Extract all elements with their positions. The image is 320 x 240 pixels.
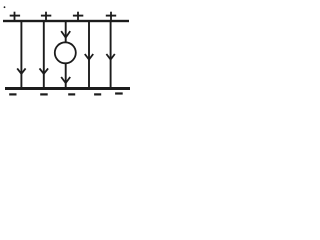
stray speck bbox=[4, 6, 6, 8]
field line 5 bbox=[110, 22, 112, 88]
arrowhead on field line 3 lower bbox=[61, 77, 70, 83]
plus charge 1 bbox=[10, 12, 20, 21]
minus charge 2 bbox=[40, 93, 48, 95]
minus charge 4 bbox=[94, 93, 101, 95]
arrowhead on field line 5 bbox=[106, 54, 114, 60]
minus charge 1 bbox=[9, 93, 16, 95]
plus charge 2 bbox=[41, 12, 51, 21]
top plate (positive electrode) bbox=[3, 20, 129, 22]
arrowhead on field line 1 bbox=[17, 68, 25, 73]
field line 1 bbox=[20, 22, 22, 88]
arrowhead on field line 2 bbox=[40, 68, 49, 73]
arrowhead on field line 4 bbox=[85, 54, 93, 60]
charged sphere bbox=[55, 42, 76, 63]
plus charge 3 bbox=[73, 12, 83, 21]
bottom plate (negative electrode) bbox=[5, 87, 130, 90]
field line 3 upper segment bbox=[65, 22, 67, 42]
plus charge 4 bbox=[106, 12, 116, 21]
arrowhead on field line 3 upper bbox=[61, 31, 70, 37]
field line 3 lower segment bbox=[65, 63, 67, 87]
minus charge 3 bbox=[68, 93, 75, 95]
minus charge 5 bbox=[115, 92, 123, 94]
field line 2 bbox=[43, 22, 45, 88]
field line 4 bbox=[88, 22, 90, 88]
